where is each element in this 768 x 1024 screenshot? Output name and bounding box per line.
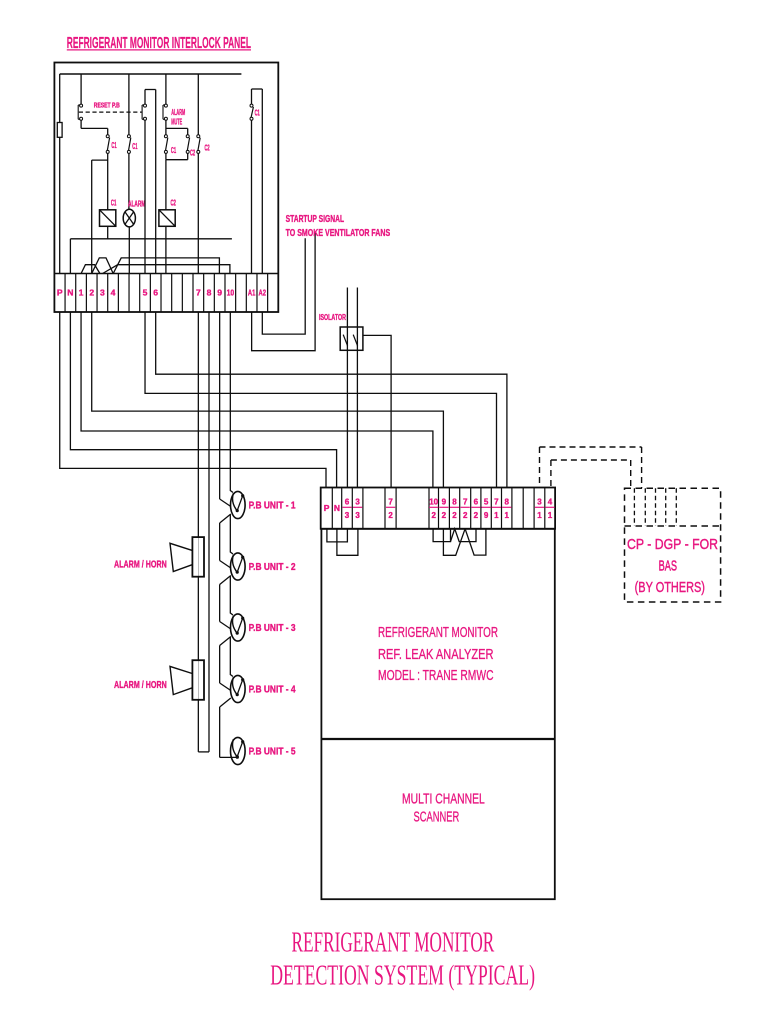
svg-text:1: 1 xyxy=(548,511,553,520)
svg-text:REF. LEAK ANALYZER: REF. LEAK ANALYZER xyxy=(378,647,494,663)
svg-text:7: 7 xyxy=(494,498,499,507)
svg-text:CP - DGP - FOR: CP - DGP - FOR xyxy=(627,537,718,553)
svg-text:4: 4 xyxy=(548,498,553,507)
svg-text:2: 2 xyxy=(463,511,468,520)
svg-text:1: 1 xyxy=(504,511,509,520)
svg-text:N: N xyxy=(67,287,73,297)
svg-text:3: 3 xyxy=(345,511,350,520)
svg-text:ALARM / HORN: ALARM / HORN xyxy=(114,560,167,571)
svg-text:C1: C1 xyxy=(111,141,116,150)
svg-text:3: 3 xyxy=(355,511,360,520)
svg-text:3: 3 xyxy=(100,287,105,297)
svg-text:P.B UNIT - 2: P.B UNIT - 2 xyxy=(249,562,296,573)
svg-text:C2: C2 xyxy=(190,148,195,157)
svg-text:5: 5 xyxy=(143,287,148,297)
svg-text:ALARM: ALARM xyxy=(128,199,145,208)
svg-text:3: 3 xyxy=(355,498,360,507)
svg-text:C1: C1 xyxy=(132,142,137,151)
svg-text:A1: A1 xyxy=(248,287,256,297)
svg-text:REFRIGERANT MONITOR: REFRIGERANT MONITOR xyxy=(378,625,498,641)
svg-text:C1: C1 xyxy=(255,109,260,118)
svg-text:8: 8 xyxy=(207,287,212,297)
svg-text:P.B UNIT - 1: P.B UNIT - 1 xyxy=(249,500,296,511)
svg-text:5: 5 xyxy=(484,498,489,507)
svg-text:DETECTION SYSTEM (TYPICAL): DETECTION SYSTEM (TYPICAL) xyxy=(270,960,535,992)
svg-text:C2: C2 xyxy=(205,144,210,153)
svg-text:P.B UNIT - 4: P.B UNIT - 4 xyxy=(249,684,296,695)
svg-text:(BY OTHERS): (BY OTHERS) xyxy=(635,580,705,596)
svg-text:1: 1 xyxy=(79,287,84,297)
svg-text:7: 7 xyxy=(388,498,393,507)
svg-text:MUTE: MUTE xyxy=(171,118,182,127)
svg-text:RESET P.B: RESET P.B xyxy=(94,103,120,110)
svg-text:4: 4 xyxy=(111,287,116,297)
svg-text:1: 1 xyxy=(494,511,499,520)
svg-text:2: 2 xyxy=(474,511,479,520)
svg-text:2: 2 xyxy=(89,287,94,297)
svg-text:2: 2 xyxy=(452,511,457,520)
svg-text:P: P xyxy=(57,287,63,297)
svg-text:BAS: BAS xyxy=(659,559,677,575)
svg-text:2: 2 xyxy=(442,511,447,520)
svg-text:8: 8 xyxy=(452,498,457,507)
svg-text:1: 1 xyxy=(537,511,542,520)
svg-text:10: 10 xyxy=(227,287,235,297)
svg-text:6: 6 xyxy=(345,498,350,507)
svg-text:ISOLATOR: ISOLATOR xyxy=(319,313,346,322)
svg-text:MODEL : TRANE RMWC: MODEL : TRANE RMWC xyxy=(378,668,494,684)
svg-text:N: N xyxy=(334,503,340,513)
svg-text:2: 2 xyxy=(431,511,436,520)
svg-text:8: 8 xyxy=(504,498,509,507)
svg-text:9: 9 xyxy=(217,287,222,297)
svg-text:10: 10 xyxy=(429,498,438,507)
svg-text:REFRIGERANT MONITOR INTERLOCK: REFRIGERANT MONITOR INTERLOCK PANEL xyxy=(67,35,251,52)
svg-text:P.B UNIT - 3: P.B UNIT - 3 xyxy=(249,623,296,634)
svg-text:C1: C1 xyxy=(111,199,117,208)
svg-text:ALARM / HORN: ALARM / HORN xyxy=(114,680,167,691)
svg-text:STARTUP SIGNAL: STARTUP SIGNAL xyxy=(286,214,345,225)
svg-text:C1: C1 xyxy=(171,146,176,155)
svg-text:SCANNER: SCANNER xyxy=(414,810,460,826)
svg-text:REFRIGERANT MONITOR: REFRIGERANT MONITOR xyxy=(292,927,495,959)
svg-text:7: 7 xyxy=(463,498,468,507)
svg-text:C2: C2 xyxy=(171,199,177,208)
svg-text:ALARM: ALARM xyxy=(171,108,185,117)
svg-text:7: 7 xyxy=(196,287,201,297)
svg-text:TO SMOKE VENTILATOR FANS: TO SMOKE VENTILATOR FANS xyxy=(286,228,391,239)
svg-text:P: P xyxy=(324,503,330,513)
svg-text:6: 6 xyxy=(474,498,479,507)
svg-text:P.B UNIT - 5: P.B UNIT - 5 xyxy=(249,746,296,757)
svg-text:2: 2 xyxy=(388,511,393,520)
svg-text:6: 6 xyxy=(153,287,158,297)
svg-text:A2: A2 xyxy=(259,287,267,297)
svg-text:MULTI CHANNEL: MULTI CHANNEL xyxy=(402,792,485,808)
svg-text:9: 9 xyxy=(484,511,489,520)
svg-text:9: 9 xyxy=(442,498,447,507)
svg-text:3: 3 xyxy=(537,498,542,507)
